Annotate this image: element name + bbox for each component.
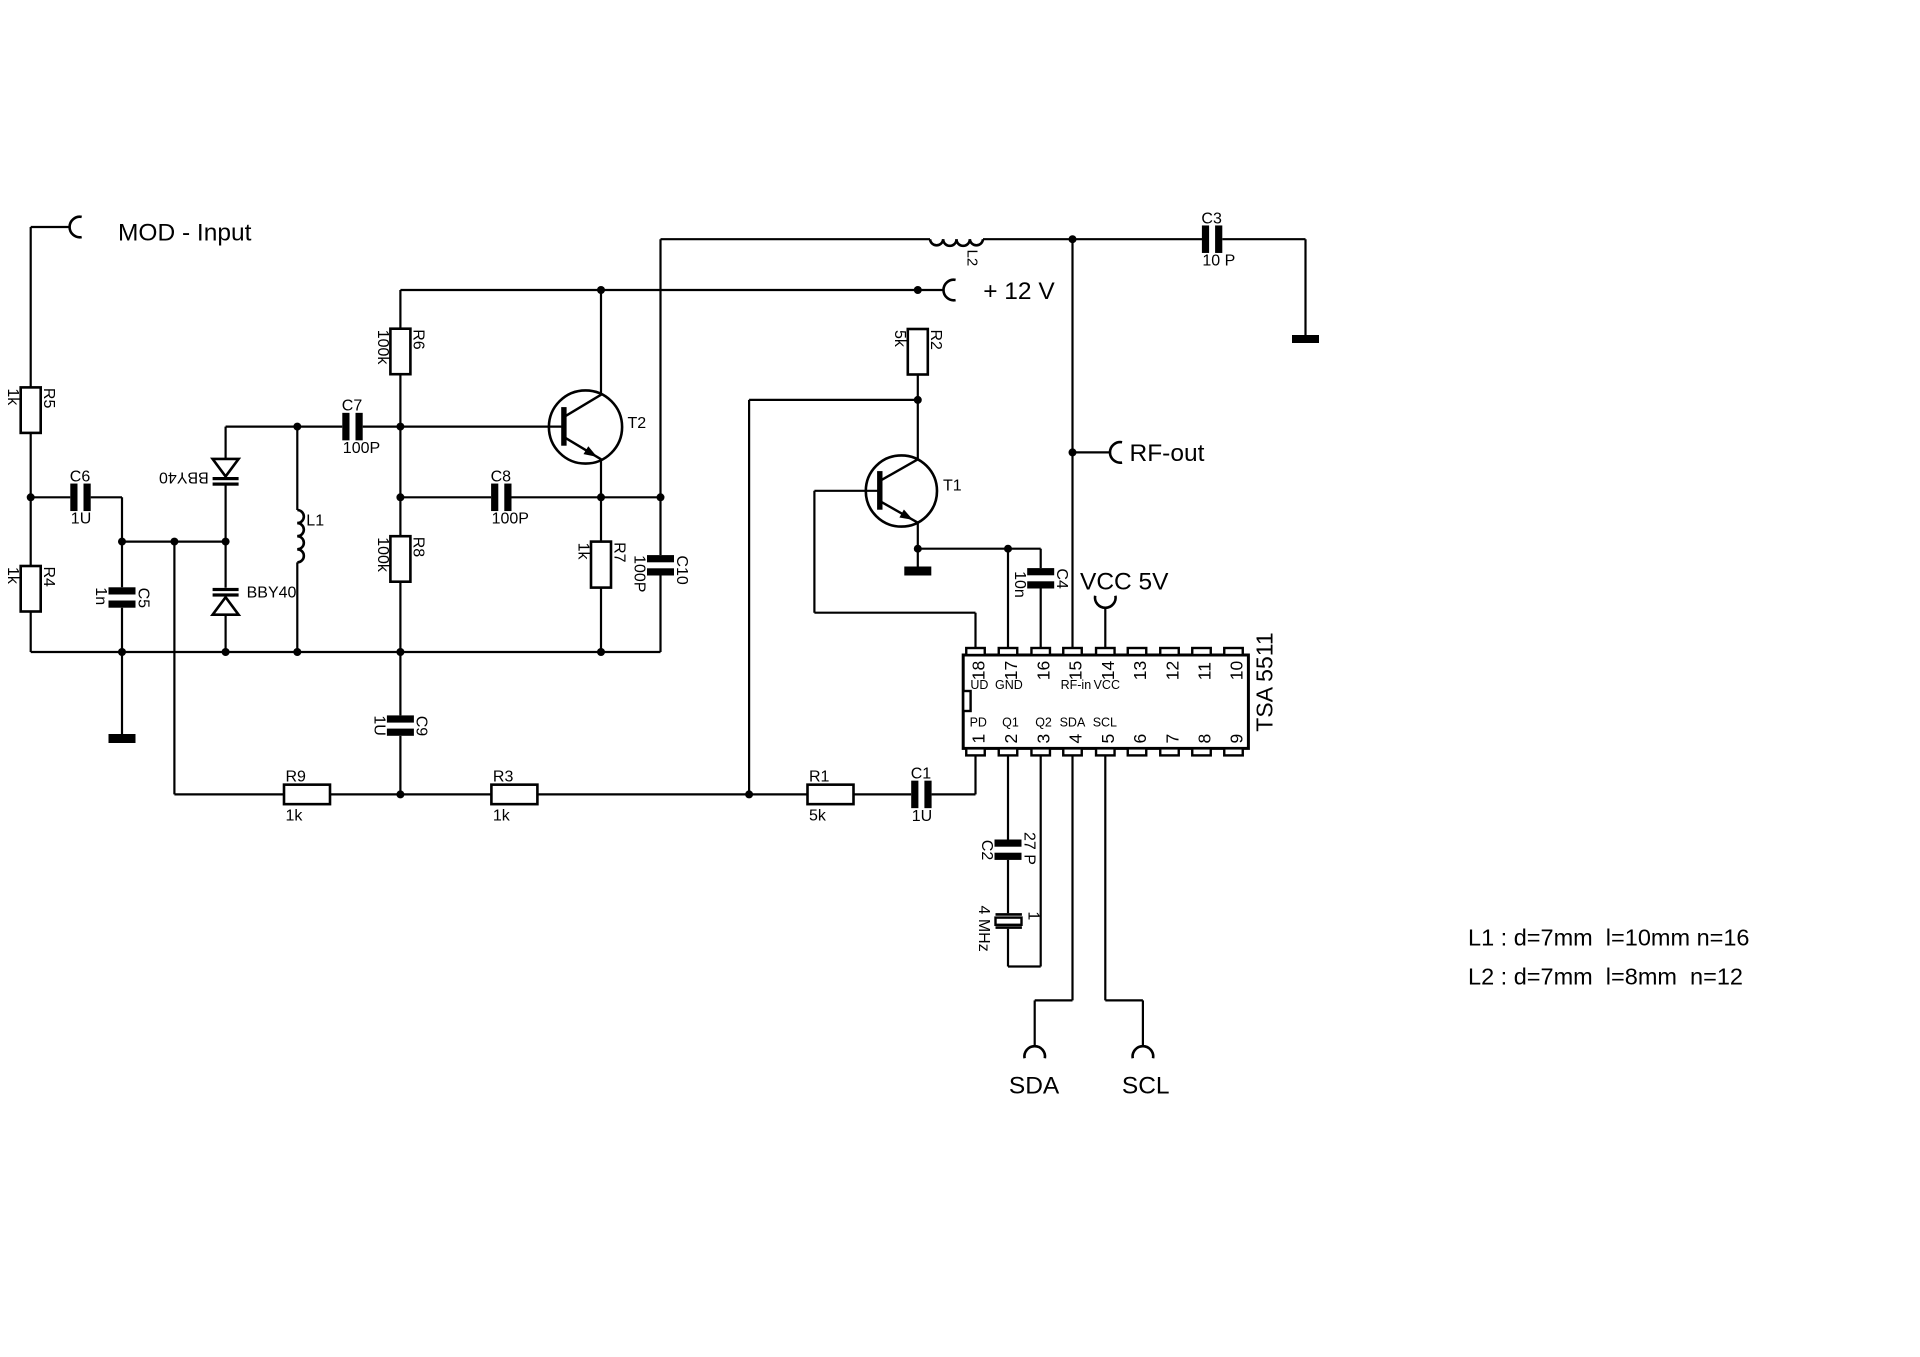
wire varactor top stem [225,427,227,459]
IC pin pad 4 [1063,748,1082,755]
value label 1U (C6) [71,511,91,528]
svg-text:6: 6 [1130,734,1150,744]
value label 1n (C5) [92,587,109,605]
resistor R3 [491,768,537,804]
pin name VCC (pin 14) [1094,678,1120,692]
svg-text:5: 5 [1098,734,1118,744]
value label 1k (R7) [574,543,591,561]
value label 1U (C1) [912,808,932,825]
resistor R2 [908,329,944,375]
capacitor C7 [342,398,363,441]
wire T2 emitter [600,460,602,541]
capacitor C6 [70,468,91,511]
pin number 13 [1130,661,1150,680]
svg-text:100P: 100P [343,440,380,457]
capacitor C1 [911,765,932,808]
wire L1 bottom [296,562,298,652]
pin number 4 [1065,734,1085,744]
IC notch [963,691,970,711]
wire down to ground [1304,239,1306,335]
capacitor C4 [1027,568,1070,589]
pin number 8 [1194,734,1214,744]
value label 5k (R2) [891,330,908,348]
pin number 16 [1034,661,1054,680]
svg-text:1: 1 [968,734,988,744]
IC pin pad 17 [999,648,1018,655]
resistor R5 [21,387,57,433]
wire R9-R3 [330,793,491,795]
svg-text:C1: C1 [911,765,932,782]
svg-text:1k: 1k [4,388,21,406]
svg-text:13: 13 [1130,661,1150,680]
svg-text:UD: UD [970,678,988,692]
svg-text:T1: T1 [943,477,962,494]
wire up to pin1 [974,755,976,794]
svg-text:1k: 1k [4,567,21,585]
wire C5 to ground [121,608,123,734]
svg-text:C6: C6 [70,468,91,485]
resistor R8 [390,536,426,582]
node L1 top junction [293,423,301,431]
svg-text:R7: R7 [610,542,627,563]
svg-text:VCC: VCC [1094,678,1120,692]
wire R4 bottom [30,612,32,652]
svg-text:C4: C4 [1053,568,1070,589]
ground right of C3 [1292,335,1319,343]
value label 100P (C7) [343,440,380,457]
svg-text:1U: 1U [71,511,91,528]
svg-text:BBY40: BBY40 [159,469,209,486]
svg-text:10: 10 [1226,660,1246,680]
wire C4 to pin16 [1040,589,1042,649]
wire left rail upper [30,227,32,387]
value label 100k (R6) [374,330,391,366]
wire L1 top [296,427,298,510]
svg-text:10 P: 10 P [1202,253,1235,270]
pin number 14 [1098,660,1118,680]
label BBY40 bottom [247,585,297,602]
svg-text:R3: R3 [493,768,514,785]
node T2 collector rail [597,286,605,294]
svg-text:100P: 100P [631,555,648,592]
wire MOD stub [31,226,70,228]
wire top rail right [983,238,1202,240]
pin number 3 [1034,734,1054,744]
wire T1 base down [813,491,815,613]
svg-text:RF-out: RF-out [1130,440,1205,467]
svg-text:L1 : d=7mm l=10mm n=16: L1 : d=7mm l=10mm n=16 [1468,925,1750,951]
node R2/feedback junction [914,396,922,404]
wire C4 top [1040,549,1042,568]
resistor R4 [21,566,57,612]
label MOD - Input [118,220,252,247]
svg-text:C3: C3 [1201,210,1222,227]
node T2 emitter C8 row [597,493,605,501]
capacitor C5 [109,587,152,608]
IC pin pad 18 [966,648,985,655]
svg-text:C7: C7 [342,398,363,415]
svg-text:C5: C5 [134,588,151,609]
svg-text:L2: L2 [964,250,981,267]
node R9 tap [170,538,178,546]
svg-text:16: 16 [1034,661,1054,680]
wire R8 to C8 [400,496,491,498]
value label 100P (C10) [631,555,648,592]
wire C2 to crystal [1007,860,1009,913]
node C6/C5 junction [118,538,126,546]
wire R6 to R8 [399,374,401,536]
varactor diode D2 BBY40 (bottom) [213,588,239,615]
wire T1 emitter [917,522,919,566]
wire emitter to C4 [918,548,1041,550]
svg-text:R2: R2 [927,330,944,351]
node feedback row junction [745,790,753,798]
label BBY40 top (rotated) [159,469,209,486]
pin name Q2 (pin 3) [1035,716,1052,730]
svg-text:SCL: SCL [1093,716,1117,730]
pin name Q1 (pin 2) [1002,716,1019,730]
svg-text:MOD - Input: MOD - Input [118,220,252,247]
resistor R7 [591,542,627,588]
pin name PD (pin 1) [970,716,987,730]
svg-text:1k: 1k [493,807,511,824]
svg-text:100k: 100k [374,537,391,573]
wire up to pin3 [1040,755,1042,966]
wire C9 down [399,736,401,795]
node C8/R8 junction [396,493,404,501]
pin number 15 [1065,661,1085,680]
wire rail to C9 [399,652,401,715]
value label 27 P (C2) [1020,832,1037,865]
wire base to pin18 horiz [814,612,975,614]
pin name RF-in (pin 15) [1061,678,1092,692]
IC pin pad 16 [1031,648,1050,655]
svg-text:R6: R6 [410,329,427,350]
wire to R9 [174,793,284,795]
svg-text:C9: C9 [413,716,430,737]
value label 1k (R5) [4,388,21,406]
pin number 9 [1226,734,1246,744]
wire RF vertical [1071,239,1073,648]
node T1 emitter junction [914,545,922,553]
IC pin pad 10 [1224,648,1243,655]
capacitor C10 [647,555,690,585]
resistor R6 [390,329,426,375]
node varactor bottom rail [222,648,230,656]
resistor R1 [808,768,854,804]
svg-text:RF-in: RF-in [1061,678,1092,692]
IC pin pad 7 [1160,748,1179,755]
IC pin pad 12 [1160,648,1179,655]
svg-text:SCL: SCL [1122,1073,1170,1100]
capacitor C3 [1201,210,1222,253]
op-amp-style IC body U1 TSA 5511 [963,655,1248,748]
node +12V tap [914,286,922,294]
capacitor C2 [978,840,1021,861]
node C9 row junction [396,790,404,798]
label SDA [1009,1073,1060,1100]
svg-text:27 P: 27 P [1020,832,1037,865]
wire down to pin18 [974,613,976,648]
svg-text:5k: 5k [891,330,908,348]
label L2 spec [1468,964,1743,990]
IC pin pad 11 [1192,648,1211,655]
node C8 right junction [657,493,665,501]
wire mid horizontal [122,540,226,542]
wire R7 bottom [600,588,602,652]
value label 4 MHz (crystal) [975,906,992,952]
pin number 18 [968,661,988,680]
IC pin pad 8 [1192,748,1211,755]
wire right vertical [659,239,661,555]
svg-text:4 MHz: 4 MHz [975,906,992,952]
label L2 [964,250,981,267]
wire SCL jog [1105,999,1143,1001]
connector SDA [1024,1046,1045,1058]
inductor L1 [297,510,304,562]
wire C3 to corner [1222,238,1305,240]
svg-text:L2 : d=7mm l=8mm n=12: L2 : d=7mm l=8mm n=12 [1468,964,1743,990]
name label 1 (crystal) [1025,911,1042,920]
svg-text:1: 1 [1025,911,1042,920]
svg-text:C2: C2 [978,840,995,861]
wire feedback horizontal [749,399,918,401]
label T1 [943,477,962,494]
ground below T1 [904,567,931,576]
svg-text:PD: PD [970,716,987,730]
value label 1k (R9) [286,807,304,824]
wire tap down to R9 row [173,542,175,795]
pin name SCL (pin 5) [1093,716,1117,730]
wire +12V rail [400,289,917,291]
svg-text:3: 3 [1034,734,1054,744]
svg-text:T2: T2 [628,415,647,432]
connector +12V supply [943,280,955,301]
transistor T2 [549,390,622,463]
svg-text:TSA 5511: TSA 5511 [1252,632,1278,731]
svg-text:Q1: Q1 [1002,716,1019,730]
pin number 6 [1130,734,1150,744]
svg-text:R1: R1 [809,768,830,785]
wire pin5 down [1104,755,1106,1000]
pin number 11 [1194,662,1214,680]
node R7 rail [597,648,605,656]
capacitor C8 [491,468,512,511]
node C5 rail crossing [118,648,126,656]
svg-text:2: 2 [1001,734,1021,744]
svg-text:R5: R5 [40,388,57,409]
pin number 17 [1001,661,1021,680]
wire C6 to corner [91,496,122,498]
value label 100P (C8) [492,511,529,528]
label VCC 5V [1080,569,1169,596]
svg-text:R9: R9 [286,768,307,785]
svg-text:1U: 1U [912,808,932,825]
pin number 2 [1001,734,1021,744]
value label 100k (R8) [374,537,391,573]
svg-text:+ 12 V: + 12 V [983,278,1055,305]
pin number 7 [1162,734,1182,744]
wire varactor bottom [225,615,227,652]
inductor L2 [930,239,983,246]
IC pin pad 14 [1096,648,1115,655]
value label 1k (R4) [4,567,21,585]
wire R5-R4 [30,433,32,566]
pin number 12 [1162,661,1182,680]
pin number 5 [1098,734,1118,744]
wire R2 bottom [917,375,919,460]
connector SCL [1133,1046,1154,1058]
wire C8 to right [512,496,661,498]
IC pin pad 9 [1224,748,1243,755]
svg-text:4: 4 [1065,734,1085,744]
connector RF-out [1110,442,1122,463]
value label 1U (C9) [371,715,388,735]
svg-text:C10: C10 [673,555,690,584]
svg-text:GND: GND [995,678,1023,692]
svg-text:8: 8 [1194,734,1214,744]
wire R1-C1 [854,793,912,795]
svg-text:9: 9 [1226,734,1246,744]
resistor R9 [284,768,330,804]
node varactor mid [222,538,230,546]
pin name UD (pin 18) [970,678,988,692]
svg-text:1U: 1U [371,715,388,735]
wire oscillator bottom rail [31,651,661,653]
svg-text:100P: 100P [492,511,529,528]
wire R3-R1 [537,793,807,795]
label L1 [306,513,324,530]
svg-text:7: 7 [1162,734,1182,744]
wire RF-out stub [1073,451,1111,453]
wire C7 to T2 base [363,426,564,428]
crystal Q1 4MHz [996,914,1022,927]
pin name GND (pin 17) [995,678,1023,692]
IC pin pad 1 [966,748,985,755]
svg-text:1k: 1k [574,543,591,561]
wire crystal down [1007,929,1009,967]
svg-text:L1: L1 [306,513,324,530]
svg-text:1k: 1k [286,807,304,824]
wire between varactors [225,486,227,588]
pin number 10 [1226,660,1246,680]
svg-text:R4: R4 [40,567,57,588]
wire R6 top [399,290,401,329]
wire T1 base [814,490,878,492]
pin number 1 [968,734,988,744]
svg-text:VCC 5V: VCC 5V [1080,569,1169,596]
wire T2 collector [600,290,602,394]
label + 12 V [983,278,1055,305]
IC pin pad 6 [1128,748,1147,755]
wire to C6 [31,496,71,498]
wire down to pin17 [1007,549,1009,648]
IC pin pad 3 [1031,748,1050,755]
wire SDA jog [1035,999,1073,1001]
svg-text:10n: 10n [1011,571,1028,598]
wire varactor to C7 [226,426,343,428]
label RF-out [1130,440,1205,467]
IC pin pad 2 [999,748,1018,755]
wire pin2 down [1007,755,1009,839]
connector VCC 5V [1095,596,1116,608]
svg-text:SDA: SDA [1009,1073,1060,1100]
svg-text:SDA: SDA [1060,716,1086,730]
svg-text:R8: R8 [410,537,427,558]
value label 10 P (C3) [1202,253,1235,270]
IC pin pad 5 [1096,748,1115,755]
label SCL [1122,1073,1170,1100]
varactor diode D1 BBY40 (top) [213,459,239,486]
node pin17 tap [1004,545,1012,553]
node C7/R6 junction [396,423,404,431]
wire +12V stub [918,289,944,291]
svg-text:12: 12 [1162,661,1182,680]
wire C10 bottom [659,576,661,653]
wire VCC to pin14 [1104,608,1106,648]
label T2 [628,415,647,432]
value label 10n (C4) [1011,571,1028,598]
connector J1 MOD-Input [70,217,82,238]
ground below C5 [109,734,136,743]
wire C1 to corner [932,793,976,795]
node R8 rail [396,648,404,656]
wire C6 down [121,497,123,587]
label L1 spec [1468,925,1750,951]
svg-text:11: 11 [1194,662,1214,680]
node RF-out tap [1069,448,1077,456]
node RF line top [1069,235,1077,243]
capacitor C9 [387,715,430,736]
svg-text:100k: 100k [374,330,391,366]
wire top rail left [661,238,931,240]
wire pin4 down [1071,755,1073,1000]
wire SDA down [1034,1000,1036,1046]
IC pin pad 15 [1063,648,1082,655]
svg-text:Q2: Q2 [1035,716,1052,730]
svg-text:1n: 1n [92,587,109,605]
node L1 bottom rail [293,648,301,656]
transistor T1 [866,455,937,526]
wire crystal loop horiz [1008,965,1041,967]
value label 1k (R3) [493,807,511,824]
wire R8 bottom [399,582,401,652]
node R5/R4/C6 junction [27,493,35,501]
wire SCL down [1142,1000,1144,1046]
svg-text:5k: 5k [809,807,827,824]
pin name SDA (pin 4) [1060,716,1086,730]
svg-text:BBY40: BBY40 [247,585,297,602]
IC pin pad 13 [1128,648,1147,655]
wire feedback vertical [748,400,750,795]
svg-text:C8: C8 [491,468,512,485]
value label 5k (R1) [809,807,827,824]
label TSA 5511 [1252,632,1278,731]
